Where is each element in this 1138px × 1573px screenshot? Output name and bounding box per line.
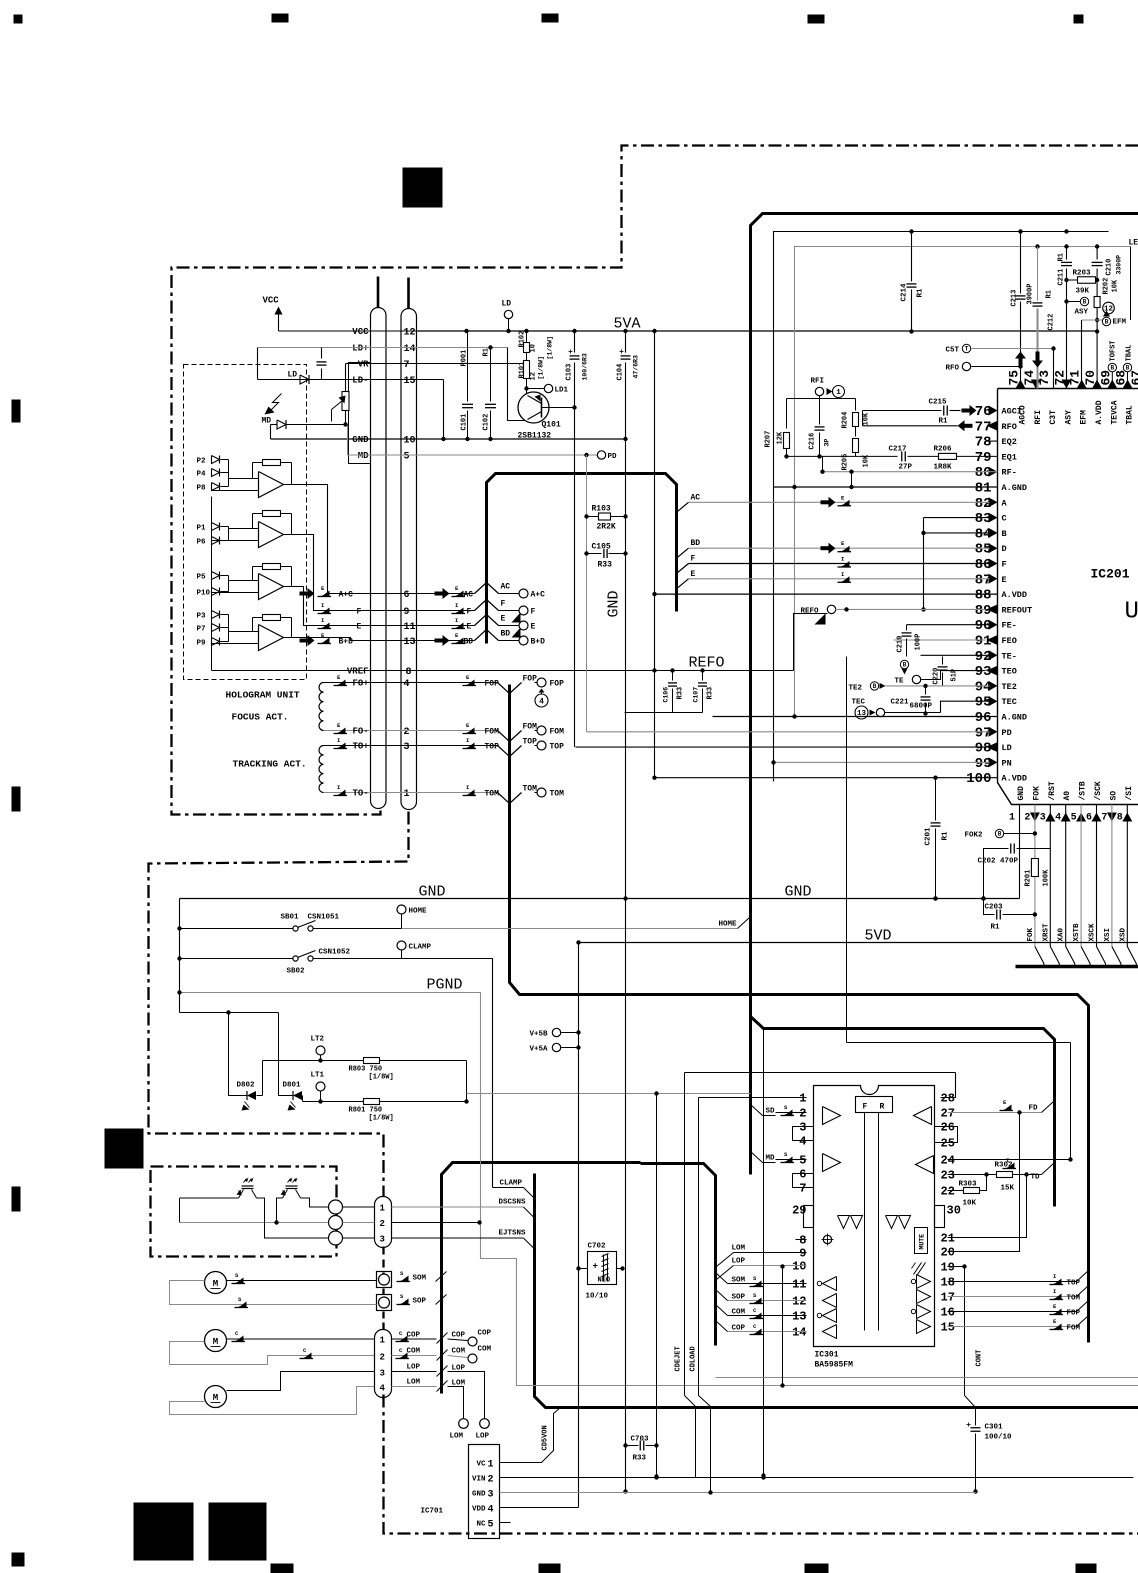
svg-text:BD: BD xyxy=(464,638,474,647)
connector pill CN2 xyxy=(375,1197,392,1248)
row PN pin99 xyxy=(774,761,990,763)
arrow into F terminal xyxy=(512,613,521,623)
row LOP xyxy=(392,1371,437,1373)
svg-text:HOME: HOME xyxy=(409,908,428,916)
svg-text:/RST: /RST xyxy=(1048,781,1057,800)
svg-text:LOM: LOM xyxy=(450,1433,464,1441)
svg-text:8: 8 xyxy=(1117,813,1123,824)
svg-text:2: 2 xyxy=(404,727,410,738)
svg-text:SB02: SB02 xyxy=(287,968,306,976)
down triangles R xyxy=(886,1216,898,1229)
svg-text:TEC: TEC xyxy=(852,699,866,707)
svg-text:15K: 15K xyxy=(1001,1185,1015,1193)
wire LD- row xyxy=(258,379,444,381)
svg-text:SD: SD xyxy=(766,1108,776,1116)
row BD markers right xyxy=(435,639,443,643)
terminal circle F xyxy=(499,610,519,612)
svg-text:[1/8W]: [1/8W] xyxy=(538,356,545,379)
svg-text:IC201: IC201 xyxy=(1091,567,1130,582)
transistor Q101 2SB1132 xyxy=(518,392,549,423)
svg-text:REFOUT: REFOUT xyxy=(1002,605,1033,615)
row F markers right xyxy=(454,608,464,614)
svg-text:FOCUS ACT.: FOCUS ACT. xyxy=(232,712,289,723)
svg-text:81: 81 xyxy=(975,481,992,497)
svg-text:12: 12 xyxy=(530,372,538,380)
svg-text:PD: PD xyxy=(608,453,618,461)
VCC arrow xyxy=(278,309,280,332)
svg-text:XSI: XSI xyxy=(1104,928,1112,942)
op-amp A1 xyxy=(259,472,284,498)
capacitor C212 R1 xyxy=(1037,247,1039,301)
COP terminal xyxy=(468,1337,477,1346)
svg-text:XSTB: XSTB xyxy=(1073,923,1081,942)
potentiometer VR xyxy=(342,392,349,411)
capacitor C220 51P xyxy=(942,657,944,665)
op-amp A4 xyxy=(259,625,284,651)
terminal circle TOM xyxy=(535,792,538,794)
dashed photodiode box xyxy=(184,365,307,680)
bus V-tap TOM xyxy=(498,793,510,804)
svg-text:2: 2 xyxy=(380,1353,385,1363)
svg-text:19: 19 xyxy=(941,1261,955,1275)
MD tap xyxy=(751,1152,763,1163)
LOM tap xyxy=(734,1252,807,1254)
svg-text:V+5A: V+5A xyxy=(530,1046,549,1054)
svg-text:B+D: B+D xyxy=(339,638,354,647)
svg-text:C203: C203 xyxy=(985,904,1004,912)
svg-text:VCC: VCC xyxy=(263,296,280,306)
wire to lamps xyxy=(180,1012,279,1014)
MUTE box xyxy=(915,1228,928,1254)
svg-text:88: 88 xyxy=(975,588,992,604)
svg-text:P6: P6 xyxy=(197,539,207,547)
svg-text:GND: GND xyxy=(352,435,369,445)
svg-text:I: I xyxy=(466,784,469,791)
SOM net xyxy=(399,1276,409,1282)
thick system connector bar xyxy=(1016,965,1138,968)
wire XSTB down xyxy=(1080,805,1082,947)
svg-text:LT1: LT1 xyxy=(311,1072,325,1080)
svg-text:E: E xyxy=(357,623,362,632)
svg-text:M: M xyxy=(213,1279,218,1289)
svg-text:F: F xyxy=(863,1103,868,1112)
svg-text:P4: P4 xyxy=(197,471,207,479)
row LD pin98 xyxy=(576,746,986,748)
wire LD+ to Q101 emitter xyxy=(508,348,525,421)
svg-text:CONT: CONT xyxy=(976,1350,984,1367)
svg-text:CLAMP: CLAMP xyxy=(500,1180,523,1188)
wire pin27 xyxy=(947,1112,949,1114)
HOME net tag xyxy=(738,918,750,929)
wire pin8 stub xyxy=(796,1239,807,1241)
svg-text:R102: R102 xyxy=(519,331,527,348)
svg-text:D: D xyxy=(1002,544,1007,554)
row SOP pin12 xyxy=(728,1300,807,1302)
thick serial bus top corner xyxy=(751,214,1138,1175)
svg-text:R803 750: R803 750 xyxy=(349,1066,383,1074)
terminal circle TOP xyxy=(535,745,538,747)
bus chevron F xyxy=(475,600,487,611)
svg-text:P8: P8 xyxy=(197,485,207,493)
capacitor C203 R1 xyxy=(984,899,995,915)
IC IC701 body xyxy=(469,1445,500,1539)
wire FOK down xyxy=(1034,805,1036,947)
row TEO pin93 xyxy=(941,670,986,672)
svg-text:RFO: RFO xyxy=(946,365,960,373)
svg-text:VCC: VCC xyxy=(352,327,369,337)
svg-text:100: 100 xyxy=(966,771,991,787)
stub EQ2 pin78 xyxy=(986,440,998,442)
row A.VDD pin100 rail xyxy=(655,777,998,779)
row R801 750 xyxy=(303,1101,364,1103)
wire D80x common xyxy=(257,1095,263,1097)
svg-text:AC: AC xyxy=(464,591,474,600)
svg-text:P3: P3 xyxy=(197,613,207,621)
svg-text:GND: GND xyxy=(419,884,446,901)
svg-text:A+C: A+C xyxy=(531,591,546,600)
svg-text:A.GND: A.GND xyxy=(1002,713,1028,723)
svg-text:A.VDD: A.VDD xyxy=(1002,590,1028,600)
connector pill CN3 xyxy=(375,1330,392,1398)
laser beam arrow xyxy=(270,394,282,412)
svg-text:C216: C216 xyxy=(809,433,817,450)
svg-text:C201: C201 xyxy=(925,827,933,846)
terminal circle FOP xyxy=(535,682,538,684)
row TE- pin92 xyxy=(921,654,990,656)
svg-text:7: 7 xyxy=(799,1182,806,1196)
svg-text:24: 24 xyxy=(941,1154,955,1168)
svg-text:A+C: A+C xyxy=(339,591,354,600)
TD row xyxy=(948,1174,997,1176)
svg-text:FO+: FO+ xyxy=(353,679,369,689)
svg-text:6: 6 xyxy=(404,590,410,601)
thick bus ACFE collector n-shape xyxy=(487,474,677,644)
svg-text:10/10: 10/10 xyxy=(586,1293,609,1301)
CLAMP net tag xyxy=(493,1187,524,1189)
svg-text:R1: R1 xyxy=(483,348,491,356)
FD row xyxy=(948,1112,1042,1114)
svg-text:14: 14 xyxy=(404,344,416,355)
capacitor C219 100P xyxy=(906,625,908,631)
svg-text:XSCK: XSCK xyxy=(1089,923,1097,942)
REFO rail xyxy=(655,670,794,672)
svg-text:I: I xyxy=(466,737,469,744)
svg-text:6800P: 6800P xyxy=(910,703,933,711)
svg-text:6: 6 xyxy=(799,1168,806,1182)
svg-text:8: 8 xyxy=(406,667,412,678)
wire XRST down xyxy=(1049,805,1051,947)
wire EFM to pin71 xyxy=(1081,320,1083,389)
circled 12 xyxy=(1103,302,1115,314)
svg-text:C5T: C5T xyxy=(946,347,960,355)
svg-text:ASY: ASY xyxy=(1064,410,1073,425)
pot wiper arrow xyxy=(332,401,343,410)
svg-text:2: 2 xyxy=(380,1219,385,1229)
svg-text:TE: TE xyxy=(895,678,905,686)
svg-text:LT2: LT2 xyxy=(311,1036,325,1044)
F R box xyxy=(856,1097,893,1113)
wire C3T pin73 xyxy=(1053,349,1055,389)
svg-text:1: 1 xyxy=(488,1460,494,1471)
5VA rail / VCC row xyxy=(417,330,1098,332)
op-amp A4 feedback resistor xyxy=(263,615,281,621)
svg-text:I: I xyxy=(1006,1157,1009,1164)
svg-text:C105: C105 xyxy=(592,543,611,552)
net x1019 pin20 xyxy=(948,1113,1020,1252)
registration mark top x541 xyxy=(542,14,559,23)
svg-text:21: 21 xyxy=(941,1232,955,1246)
loop AGCI/RFO xyxy=(862,411,864,426)
svg-text:GND: GND xyxy=(1017,786,1026,801)
svg-text:9: 9 xyxy=(799,1247,806,1261)
wire XA0 down xyxy=(1065,805,1067,947)
resistor R202 10K xyxy=(1094,297,1100,308)
wire GND row xyxy=(271,438,626,440)
svg-text:D802: D802 xyxy=(237,1082,256,1090)
boundary segment between SOM/SOP xyxy=(382,1289,384,1295)
svg-text:TOFST: TOFST xyxy=(1110,340,1118,361)
svg-text:2: 2 xyxy=(1024,813,1030,824)
IC301 opamp D xyxy=(916,1156,934,1174)
svg-text:FOP: FOP xyxy=(1067,1310,1081,1318)
svg-text:93: 93 xyxy=(975,664,992,680)
SOP net xyxy=(399,1299,409,1305)
resistor R204 10K xyxy=(855,399,857,411)
LOM terminal xyxy=(459,1419,469,1429)
svg-text:LD+: LD+ xyxy=(352,344,368,354)
svg-text:EQ2: EQ2 xyxy=(1002,437,1017,447)
dash-dot switch unit box xyxy=(151,1167,337,1257)
wire SB01 row xyxy=(180,928,293,930)
svg-text:GND: GND xyxy=(785,884,812,901)
svg-text:I: I xyxy=(455,602,458,609)
capacitor C211 R1 xyxy=(1066,247,1068,260)
dash-dot pickup unit boundary mid xyxy=(149,812,409,1197)
svg-text:LD: LD xyxy=(288,371,298,380)
svg-text:E: E xyxy=(691,570,696,579)
svg-text:91: 91 xyxy=(975,634,992,650)
op-amp A4 input wires xyxy=(229,631,259,633)
svg-text:R303: R303 xyxy=(959,1181,978,1189)
capacitor C702 electrolytic xyxy=(588,1252,617,1285)
wire VDD4 xyxy=(500,1507,579,1509)
svg-text:13: 13 xyxy=(792,1310,806,1324)
row PD pin97 xyxy=(587,731,990,733)
tracking actuator coil xyxy=(319,746,324,793)
svg-text:R206: R206 xyxy=(934,446,953,454)
wire XSD down xyxy=(1126,805,1128,947)
svg-text:Q101: Q101 xyxy=(542,421,561,430)
cable stub above CN1a xyxy=(377,277,380,308)
svg-text:F: F xyxy=(501,600,506,609)
svg-text:100/10: 100/10 xyxy=(985,1434,1013,1442)
resistor R205 10K xyxy=(853,439,859,453)
svg-text:MUTE: MUTE xyxy=(919,1234,926,1250)
LD1 terminal xyxy=(544,384,552,392)
5VD rail xyxy=(579,942,1138,944)
svg-text:E: E xyxy=(501,615,506,624)
svg-text:XA0: XA0 xyxy=(1058,927,1066,941)
svg-text:TOP: TOP xyxy=(485,743,500,752)
capacitor C210 3300P xyxy=(1096,247,1098,260)
svg-text:RFI: RFI xyxy=(1034,410,1043,425)
Q101 base wire xyxy=(542,407,575,409)
svg-text:/STB: /STB xyxy=(1079,781,1088,800)
svg-text:MD: MD xyxy=(766,1155,776,1163)
svg-text:12: 12 xyxy=(792,1295,806,1309)
svg-text:RFI: RFI xyxy=(811,378,825,386)
svg-text:COM: COM xyxy=(407,1348,421,1356)
GND stub y712 xyxy=(625,712,703,714)
op-amp A3 output wire xyxy=(284,587,475,626)
op-amp A2 xyxy=(259,522,284,548)
svg-text:77: 77 xyxy=(975,419,992,435)
svg-text:1: 1 xyxy=(799,1092,806,1106)
junction C105 xyxy=(584,551,588,555)
svg-text:V+5B: V+5B xyxy=(530,1031,549,1039)
junction A.VDD rail xyxy=(1095,329,1099,333)
row FOP pin16 xyxy=(948,1311,1077,1313)
row A.GND pin81 xyxy=(774,486,998,488)
svg-text:TBAL: TBAL xyxy=(1126,345,1134,362)
svg-text:20: 20 xyxy=(941,1246,955,1260)
svg-text:MD: MD xyxy=(358,451,369,461)
svg-text:TO+: TO+ xyxy=(353,742,369,752)
svg-text:CLAMP: CLAMP xyxy=(409,944,432,952)
svg-text:TE2: TE2 xyxy=(1002,682,1017,692)
row SOM pin11 xyxy=(728,1283,807,1285)
svg-text:10: 10 xyxy=(530,344,538,352)
svg-text:FO-: FO- xyxy=(353,727,369,737)
svg-text:PN: PN xyxy=(1002,758,1012,768)
op-amp A1 input wires xyxy=(229,478,259,480)
row COM pin13 xyxy=(728,1315,807,1317)
pin-name field box xyxy=(349,363,371,464)
svg-text:C3T: C3T xyxy=(1049,410,1058,425)
wire PD net vertical xyxy=(586,455,588,732)
op-amp bias bus to VREF xyxy=(211,497,213,671)
buffer pin18 xyxy=(917,1275,931,1289)
svg-text:FOP: FOP xyxy=(485,680,500,689)
net vertical x656 xyxy=(656,1094,658,1477)
svg-text:2: 2 xyxy=(799,1107,806,1121)
svg-text:R1: R1 xyxy=(942,831,950,841)
svg-text:R: R xyxy=(880,1103,885,1112)
svg-text:FOM: FOM xyxy=(1067,1325,1081,1333)
wire pin24 xyxy=(948,1159,1071,1161)
svg-text:B: B xyxy=(1083,299,1087,306)
svg-text:I: I xyxy=(321,602,324,609)
circled B FE xyxy=(900,660,908,668)
wire to LD1 xyxy=(527,388,545,390)
net x763 xyxy=(763,1029,765,1476)
svg-text:F: F xyxy=(1002,560,1007,570)
svg-text:VC: VC xyxy=(476,1461,486,1469)
svg-text:1: 1 xyxy=(404,789,410,800)
svg-text:LD: LD xyxy=(1002,743,1012,753)
wire CLAMP net xyxy=(402,959,493,1188)
registration mark bottom x804 xyxy=(805,1564,829,1573)
capacitor C216 3P xyxy=(815,426,825,428)
svg-text:16: 16 xyxy=(941,1306,955,1320)
svg-text:/SCK: /SCK xyxy=(1094,781,1103,800)
buffer pin15 xyxy=(917,1320,931,1334)
pin8 symbol xyxy=(823,1235,831,1243)
net V+5 vertical x578 xyxy=(578,943,580,1508)
row E markers left xyxy=(320,623,330,629)
row B+D markers left xyxy=(300,639,308,643)
svg-text:C104: C104 xyxy=(617,364,625,381)
svg-text:R33: R33 xyxy=(677,687,685,700)
svg-text:XRST: XRST xyxy=(1042,923,1050,942)
svg-text:+: + xyxy=(593,1262,598,1272)
svg-text:9: 9 xyxy=(404,607,410,618)
row R803 750 xyxy=(263,1060,364,1062)
row F markers left xyxy=(320,608,330,614)
HOME terminal xyxy=(397,905,406,914)
svg-text:C217: C217 xyxy=(889,446,907,454)
svg-text:4: 4 xyxy=(380,1384,386,1394)
registration mark bottom x538 xyxy=(539,1564,561,1573)
svg-text:U: U xyxy=(1125,599,1138,626)
wire pin21 xyxy=(948,1175,1027,1238)
svg-text:C702: C702 xyxy=(588,1243,607,1251)
row AC markers right xyxy=(435,592,443,596)
svg-text:39K: 39K xyxy=(1076,288,1090,296)
svg-text:AC: AC xyxy=(501,583,511,592)
svg-text:67: 67 xyxy=(1129,370,1138,386)
svg-text:B: B xyxy=(1105,319,1109,326)
svg-text:FOK: FOK xyxy=(1027,927,1035,941)
thick bus branch to FD/TD xyxy=(751,1017,1055,1207)
GND rail xyxy=(180,898,1020,900)
svg-text:LOM: LOM xyxy=(407,1379,421,1387)
svg-text:2: 2 xyxy=(488,1475,494,1486)
svg-text:CDLOAD: CDLOAD xyxy=(690,1346,698,1371)
svg-text:GND: GND xyxy=(606,590,623,617)
svg-text:I: I xyxy=(1053,1288,1056,1295)
GND net x625 lower xyxy=(625,713,627,1492)
focus actuator coil xyxy=(319,683,324,731)
svg-text:XSD: XSD xyxy=(1119,927,1127,941)
SD tap xyxy=(751,1105,763,1116)
resistor R207 12K xyxy=(786,399,788,429)
wire GND net x625 xyxy=(625,331,627,353)
pin6/7 loop xyxy=(793,1174,814,1188)
IC301 opamp A xyxy=(823,1107,841,1125)
wire pin28 top loop xyxy=(685,1072,956,1074)
wire pin19 to C301 xyxy=(948,1266,965,1268)
resistor R101 xyxy=(524,361,530,379)
svg-text:I: I xyxy=(321,617,324,624)
svg-text:R1: R1 xyxy=(1046,290,1054,298)
wire VCC row xyxy=(279,330,417,332)
registration mark bottom x1075 xyxy=(1076,1564,1097,1573)
svg-text:HOLOGRAM UNIT: HOLOGRAM UNIT xyxy=(226,690,300,701)
registration mark bottom-left xyxy=(12,1553,25,1567)
wire VR row xyxy=(346,363,522,365)
CLAMP terminal xyxy=(397,941,406,950)
capacitor C214 R1 xyxy=(911,232,913,282)
svg-text:I: I xyxy=(337,737,340,744)
net x846 vertical xyxy=(846,657,848,1043)
thick-bus tap BD pin85 xyxy=(677,548,689,558)
signal arrow up pin75 xyxy=(1019,359,1023,368)
svg-text:98: 98 xyxy=(975,741,992,757)
op-amp A4 output wire xyxy=(284,638,475,641)
junction MD/VR xyxy=(343,422,347,426)
signal arrow down pin74 xyxy=(1036,352,1040,361)
